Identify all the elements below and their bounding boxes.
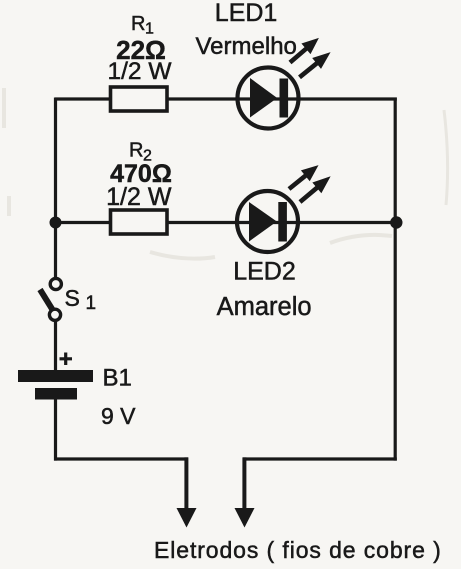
wire battery to bottom-left corner [54, 398, 57, 461]
wire bottom left horizontal [54, 457, 188, 460]
svg-text:Amarelo: Amarelo [217, 293, 312, 321]
LED2 [237, 191, 298, 252]
battery B1 positive plate [18, 370, 93, 382]
svg-text:1/2 W: 1/2 W [106, 183, 172, 211]
label R1 [131, 13, 154, 38]
electrode lead right with arrow [235, 457, 255, 527]
LED1 light arrow a [285, 32, 323, 67]
svg-text:R: R [131, 13, 145, 35]
svg-text:Eletrodos ( fios de cobre ): Eletrodos ( fios de cobre ) [154, 537, 442, 563]
wire switch to battery [54, 321, 57, 371]
svg-text:1/2 W: 1/2 W [108, 58, 173, 85]
svg-text:1: 1 [86, 293, 97, 314]
resistor R1 body [111, 87, 168, 111]
electrode lead left with arrow [177, 457, 197, 527]
svg-text:S: S [65, 285, 80, 311]
LED2 light arrow a [285, 160, 323, 195]
svg-text:LED1: LED1 [215, 0, 278, 27]
svg-text:B1: B1 [103, 365, 132, 392]
LED1 [238, 68, 299, 129]
wire top horizontal (R1/LED1 branch) [55, 97, 397, 100]
switch S1 contact bottom [49, 309, 60, 320]
svg-text:LED2: LED2 [233, 258, 296, 286]
svg-text:Vermelho: Vermelho [196, 33, 297, 60]
wire bottom right horizontal [243, 457, 397, 460]
svg-text:R: R [129, 140, 143, 162]
battery B1 plus sign [60, 353, 73, 366]
wire middle horizontal (R2/LED2 branch) [55, 221, 397, 224]
LED2 light arrow b [296, 171, 336, 207]
node junction right [390, 216, 402, 228]
label R2 [129, 140, 152, 165]
switch S1 lever [40, 290, 53, 311]
svg-text:9 V: 9 V [101, 403, 136, 429]
battery B1 negative plate [35, 388, 77, 400]
LED1 light arrow b [295, 47, 335, 83]
wire left vertical upper [54, 98, 57, 279]
switch S1 contact top [50, 278, 61, 289]
node junction left [50, 217, 62, 229]
wire right vertical [394, 98, 397, 461]
label S1 [65, 285, 97, 314]
resistor R2 body [111, 210, 168, 234]
